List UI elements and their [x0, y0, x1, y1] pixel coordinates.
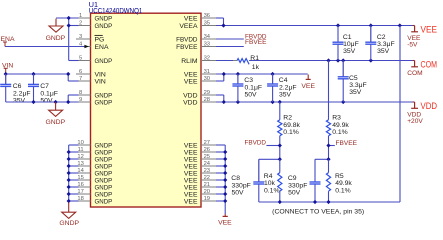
svg-text:GNDP: GNDP: [95, 58, 113, 65]
svg-text:R5: R5: [335, 173, 344, 180]
svg-text:VEE: VEE: [184, 177, 198, 184]
svg-text:31: 31: [204, 69, 210, 75]
svg-text:24: 24: [204, 161, 211, 167]
svg-text:0.1μF: 0.1μF: [245, 84, 263, 91]
svg-text:9: 9: [79, 97, 82, 103]
svg-text:VEE: VEE: [184, 15, 198, 22]
svg-text:RLIM: RLIM: [181, 58, 198, 65]
svg-text:VEE: VEE: [184, 163, 198, 170]
svg-text:29: 29: [204, 90, 210, 96]
svg-text:5: 5: [79, 56, 82, 62]
svg-text:VEE: VEE: [184, 71, 198, 78]
svg-text:VEE: VEE: [184, 78, 198, 85]
svg-text:330pF: 330pF: [232, 182, 251, 189]
svg-text:20: 20: [204, 189, 210, 195]
svg-text:VEEA: VEEA: [179, 23, 198, 30]
svg-text:0.1%: 0.1%: [264, 188, 280, 195]
svg-text:7: 7: [79, 76, 82, 82]
svg-text:C6: C6: [13, 83, 22, 90]
svg-text:10k: 10k: [264, 180, 276, 187]
svg-text:1: 1: [79, 13, 82, 19]
svg-text:C7: C7: [40, 83, 49, 90]
svg-text:27: 27: [204, 140, 210, 146]
svg-text:33: 33: [204, 42, 210, 48]
svg-text:(CONNECT TO VEEA, pin 35): (CONNECT TO VEEA, pin 35): [272, 208, 364, 215]
svg-text:GNDP: GNDP: [46, 35, 66, 42]
svg-text:22: 22: [204, 175, 210, 181]
svg-text:FBVEE: FBVEE: [245, 39, 267, 46]
svg-text:GNDP: GNDP: [95, 184, 113, 191]
svg-text:VDD: VDD: [183, 92, 197, 99]
svg-text:GNDP: GNDP: [95, 99, 113, 106]
svg-text:C4: C4: [279, 77, 288, 84]
svg-text:6: 6: [79, 69, 82, 75]
svg-text:50V: 50V: [232, 190, 245, 197]
svg-text:+20V: +20V: [407, 118, 423, 125]
svg-text:21: 21: [204, 182, 210, 188]
svg-text:C3: C3: [244, 77, 253, 84]
svg-text:FBVDD: FBVDD: [176, 36, 197, 43]
svg-text:FBVDD: FBVDD: [245, 140, 267, 147]
svg-text:35: 35: [204, 21, 210, 27]
svg-text:VEE: VEE: [301, 83, 315, 90]
svg-text:GNDP: GNDP: [45, 119, 65, 126]
svg-text:35V: 35V: [279, 92, 292, 99]
svg-text:2.2μF: 2.2μF: [279, 84, 297, 91]
svg-text:49.9k: 49.9k: [335, 180, 352, 187]
svg-text:C5: C5: [349, 75, 358, 82]
svg-text:C2: C2: [377, 34, 386, 41]
svg-text:R4: R4: [264, 173, 273, 180]
svg-text:VEE: VEE: [184, 191, 198, 198]
svg-text:50V: 50V: [288, 190, 301, 197]
svg-text:35V: 35V: [377, 48, 390, 55]
svg-text:32: 32: [204, 56, 210, 62]
svg-text:26: 26: [204, 147, 210, 153]
svg-text:C8: C8: [231, 175, 240, 182]
svg-text:69.8k: 69.8k: [283, 122, 300, 129]
svg-text:VEE: VEE: [218, 219, 232, 225]
svg-text:VEE: VEE: [184, 142, 198, 149]
svg-text:VEE: VEE: [184, 184, 198, 191]
svg-text:C1: C1: [343, 34, 352, 41]
svg-text:30: 30: [204, 76, 210, 82]
svg-text:50V: 50V: [245, 92, 258, 99]
svg-text:PG: PG: [95, 36, 105, 43]
svg-text:3.3μF: 3.3μF: [377, 41, 395, 48]
svg-text:1k: 1k: [252, 64, 260, 71]
svg-text:8: 8: [79, 90, 82, 96]
svg-text:GNDP: GNDP: [95, 177, 113, 184]
svg-text:36: 36: [204, 13, 210, 19]
svg-text:COM: COM: [421, 60, 438, 70]
svg-text:28: 28: [204, 97, 210, 103]
svg-text:GNDP: GNDP: [59, 220, 79, 225]
svg-text:19: 19: [204, 196, 210, 202]
svg-text:GNDP: GNDP: [95, 198, 113, 205]
svg-text:23: 23: [204, 168, 210, 174]
svg-text:GNDP: GNDP: [95, 23, 113, 30]
svg-text:50V: 50V: [40, 97, 53, 104]
svg-text:0.1%: 0.1%: [283, 129, 299, 136]
svg-text:GNDP: GNDP: [95, 149, 113, 156]
svg-text:VEE: VEE: [184, 170, 198, 177]
svg-text:25: 25: [204, 154, 210, 160]
svg-text:VIN: VIN: [95, 71, 106, 78]
svg-text:VEE: VEE: [184, 198, 198, 205]
svg-text:FBVEE: FBVEE: [176, 44, 198, 51]
svg-text:3.3μF: 3.3μF: [349, 82, 367, 89]
svg-text:3: 3: [79, 34, 82, 40]
svg-text:GNDP: GNDP: [95, 142, 113, 149]
svg-text:UCC14240DWNQ1: UCC14240DWNQ1: [89, 8, 143, 15]
svg-text:0.1%: 0.1%: [335, 188, 351, 195]
svg-text:10μF: 10μF: [343, 41, 359, 48]
svg-text:C9: C9: [288, 175, 297, 182]
svg-text:GNDP: GNDP: [95, 15, 113, 22]
svg-text:35V: 35V: [343, 48, 356, 55]
svg-text:ENA: ENA: [95, 44, 109, 51]
svg-text:330pF: 330pF: [288, 182, 307, 189]
svg-text:VEE: VEE: [184, 149, 198, 156]
svg-text:35V: 35V: [349, 89, 362, 96]
svg-text:GNDP: GNDP: [95, 163, 113, 170]
svg-text:35V: 35V: [13, 97, 26, 104]
svg-text:R1: R1: [250, 55, 259, 62]
svg-text:VDD: VDD: [421, 101, 438, 111]
svg-text:VDD: VDD: [183, 99, 197, 106]
svg-text:GNDP: GNDP: [95, 191, 113, 198]
svg-text:VIN: VIN: [95, 78, 106, 85]
svg-text:GNDP: GNDP: [95, 92, 113, 99]
svg-text:VEE: VEE: [421, 25, 438, 35]
svg-text:0.1%: 0.1%: [332, 129, 348, 136]
svg-text:GNDP: GNDP: [95, 170, 113, 177]
svg-text:FBVEE: FBVEE: [336, 140, 358, 147]
svg-text:-5V: -5V: [407, 41, 418, 48]
svg-text:34: 34: [204, 34, 211, 40]
svg-text:2: 2: [79, 21, 82, 27]
svg-text:GNDP: GNDP: [95, 156, 113, 163]
svg-text:R3: R3: [332, 115, 341, 122]
svg-text:ENA: ENA: [1, 36, 15, 43]
svg-text:VEE: VEE: [184, 156, 198, 163]
svg-text:49.9k: 49.9k: [332, 122, 349, 129]
svg-text:COM: COM: [407, 70, 422, 77]
svg-text:R2: R2: [283, 115, 292, 122]
